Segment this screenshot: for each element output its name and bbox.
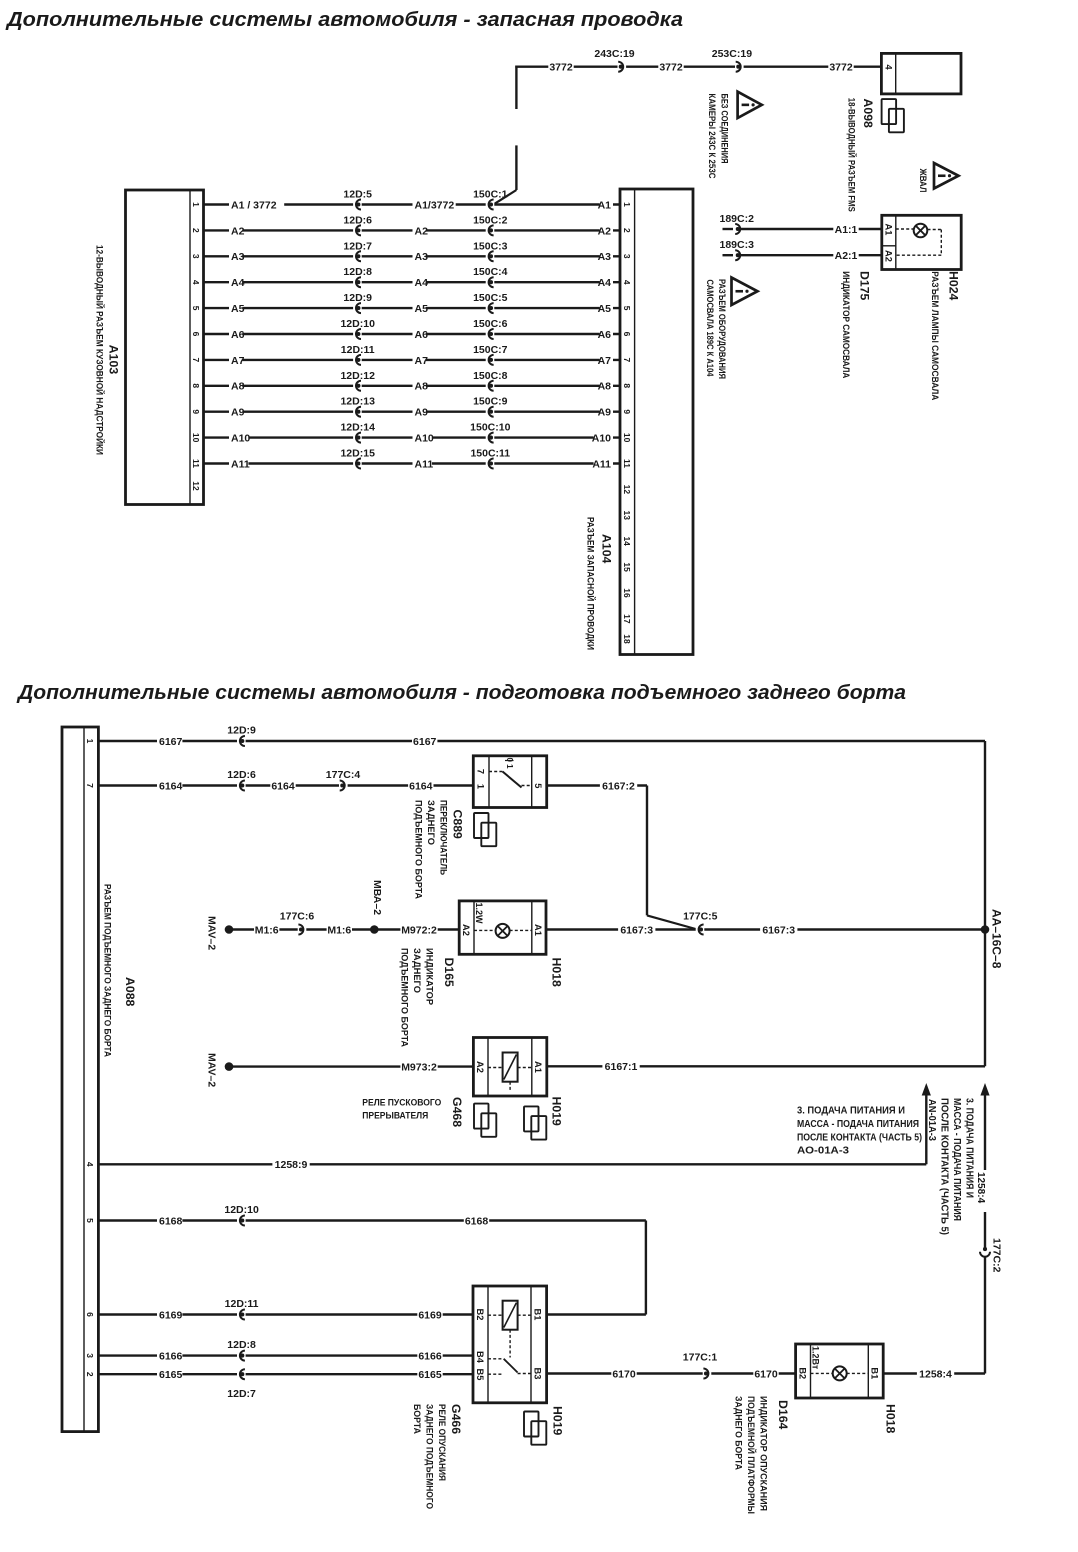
svg-text:A11: A11 xyxy=(415,458,434,470)
svg-text:A8: A8 xyxy=(415,381,429,393)
svg-text:A6: A6 xyxy=(415,329,429,341)
svg-text:A9: A9 xyxy=(415,407,429,419)
svg-text:7: 7 xyxy=(85,783,95,788)
svg-text:150C:2: 150C:2 xyxy=(473,214,508,226)
svg-text:150C:7: 150C:7 xyxy=(473,344,508,356)
svg-text:8: 8 xyxy=(622,383,632,388)
svg-text:РАЗЪЕМ ОБОРУДОВАНИЯ: РАЗЪЕМ ОБОРУДОВАНИЯ xyxy=(717,279,727,379)
svg-text:5: 5 xyxy=(533,783,543,788)
svg-text:РЕЛЕ ОПУСКАНИЯ: РЕЛЕ ОПУСКАНИЯ xyxy=(437,1404,447,1481)
svg-text:3: 3 xyxy=(622,254,632,259)
svg-text:A11: A11 xyxy=(592,458,611,470)
svg-text:177C:4: 177C:4 xyxy=(326,769,361,781)
svg-text:A088: A088 xyxy=(123,977,137,1007)
svg-text:12D:9: 12D:9 xyxy=(227,725,256,737)
svg-text:7: 7 xyxy=(622,358,632,363)
svg-text:177C:1: 177C:1 xyxy=(683,1352,718,1364)
svg-text:150C:9: 150C:9 xyxy=(473,396,508,408)
svg-text:12D:6: 12D:6 xyxy=(227,769,256,781)
svg-text:6166: 6166 xyxy=(418,1351,442,1363)
svg-text:6167:3: 6167:3 xyxy=(620,924,653,936)
svg-text:6167:2: 6167:2 xyxy=(602,780,635,792)
svg-text:12D:9: 12D:9 xyxy=(343,292,372,304)
svg-text:2: 2 xyxy=(622,228,632,233)
svg-text:6: 6 xyxy=(85,1312,95,1317)
svg-text:РАЗЪЕМ ПОДЪЕМНОГО ЗАДНЕГО БОРТ: РАЗЪЕМ ПОДЪЕМНОГО ЗАДНЕГО БОРТА xyxy=(103,884,113,1057)
svg-text:МВА–2: МВА–2 xyxy=(371,880,383,915)
svg-text:150C:5: 150C:5 xyxy=(473,292,508,304)
svg-text:150C:8: 150C:8 xyxy=(473,370,508,382)
svg-text:M1:6: M1:6 xyxy=(255,924,279,936)
svg-text:A7: A7 xyxy=(415,355,429,367)
svg-text:ЗАДНЕГО: ЗАДНЕГО xyxy=(412,948,422,993)
svg-text:11: 11 xyxy=(191,459,201,468)
svg-text:ПОДЪЕМНОЙ ПЛАТФОРМЫ: ПОДЪЕМНОЙ ПЛАТФОРМЫ xyxy=(746,1396,757,1514)
svg-text:6164: 6164 xyxy=(271,780,295,792)
svg-text:AN-01A-3: AN-01A-3 xyxy=(926,1099,937,1141)
svg-text:177C:2: 177C:2 xyxy=(991,1238,1003,1273)
svg-text:12D:6: 12D:6 xyxy=(343,214,372,226)
svg-text:B1: B1 xyxy=(533,1309,543,1321)
svg-text:A5: A5 xyxy=(231,303,245,315)
svg-text:4: 4 xyxy=(622,280,632,285)
svg-text:MAV–2: MAV–2 xyxy=(206,1053,218,1087)
svg-text:243C:19: 243C:19 xyxy=(594,48,634,60)
svg-text:12D:5: 12D:5 xyxy=(343,189,372,201)
svg-text:САМОСВАЛА 189С К А104: САМОСВАЛА 189С К А104 xyxy=(705,280,715,378)
svg-text:150C:1: 150C:1 xyxy=(473,189,508,201)
svg-text:150C:3: 150C:3 xyxy=(473,240,508,252)
svg-text:11: 11 xyxy=(622,459,632,468)
svg-text:A10: A10 xyxy=(231,433,250,445)
svg-text:3. ПОДАЧА ПИТАНИЯ И: 3. ПОДАЧА ПИТАНИЯ И xyxy=(964,1098,975,1198)
svg-text:3772: 3772 xyxy=(659,62,683,74)
svg-text:12D:10: 12D:10 xyxy=(224,1204,259,1216)
svg-text:АО-01А-3: АО-01А-3 xyxy=(797,1146,850,1157)
svg-text:A5: A5 xyxy=(415,303,429,315)
svg-text:A2: A2 xyxy=(475,1061,485,1073)
svg-text:A1/3772: A1/3772 xyxy=(415,199,455,211)
svg-text:B1: B1 xyxy=(870,1367,880,1379)
svg-text:A1 / 3772: A1 / 3772 xyxy=(231,199,277,211)
svg-text:1.2W: 1.2W xyxy=(474,903,484,925)
svg-text:5: 5 xyxy=(191,306,201,311)
svg-text:253C:19: 253C:19 xyxy=(712,48,752,60)
svg-text:13: 13 xyxy=(622,511,632,521)
svg-text:6167: 6167 xyxy=(159,736,183,748)
svg-text:177C:6: 177C:6 xyxy=(280,911,315,923)
svg-text:ЗАДНЕГО: ЗАДНЕГО xyxy=(426,800,436,845)
svg-text:12D:8: 12D:8 xyxy=(227,1339,256,1351)
svg-text:МАССА - ПОДАЧА ПИТАНИЯ: МАССА - ПОДАЧА ПИТАНИЯ xyxy=(797,1119,919,1130)
svg-text:150C:4: 150C:4 xyxy=(473,266,508,278)
svg-text:189C:2: 189C:2 xyxy=(720,213,755,225)
svg-text:A4: A4 xyxy=(231,277,245,289)
svg-text:A2: A2 xyxy=(231,225,245,237)
svg-text:ЗАДНЕГО БОРТА: ЗАДНЕГО БОРТА xyxy=(734,1396,744,1470)
svg-text:B2: B2 xyxy=(475,1309,485,1321)
svg-text:БЕЗ СОЕДИНЕНИЯ: БЕЗ СОЕДИНЕНИЯ xyxy=(719,94,729,164)
svg-text:ПОДЪЕМНОГО БОРТА: ПОДЪЕМНОГО БОРТА xyxy=(400,948,410,1047)
svg-text:A10: A10 xyxy=(592,433,611,445)
svg-text:РАЗЪЕМ ЗАПАСНОЙ ПРОВОДКИ: РАЗЪЕМ ЗАПАСНОЙ ПРОВОДКИ xyxy=(586,517,597,650)
svg-text:A1: A1 xyxy=(598,199,612,211)
svg-text:B5: B5 xyxy=(475,1369,485,1381)
svg-text:9: 9 xyxy=(622,409,632,414)
svg-text:A6: A6 xyxy=(231,329,245,341)
svg-text:12D:11: 12D:11 xyxy=(225,1298,259,1310)
svg-text:ЖВАЛ: ЖВАЛ xyxy=(918,168,928,193)
svg-text:A2: A2 xyxy=(598,225,612,237)
svg-text:B4: B4 xyxy=(475,1351,485,1364)
svg-text:12-ВЫВОДНЫЙ РАЗЪЕМ КУЗОВНОЙ НА: 12-ВЫВОДНЫЙ РАЗЪЕМ КУЗОВНОЙ НАДСТРОЙКИ xyxy=(95,245,106,455)
svg-text:12D:13: 12D:13 xyxy=(340,396,375,408)
svg-text:6169: 6169 xyxy=(418,1309,442,1321)
svg-text:6: 6 xyxy=(191,332,201,337)
svg-text:A9: A9 xyxy=(598,407,612,419)
svg-text:2: 2 xyxy=(85,1372,95,1377)
svg-text:150C:11: 150C:11 xyxy=(470,448,510,460)
svg-text:A098: A098 xyxy=(861,99,875,129)
svg-text:12D:7: 12D:7 xyxy=(343,240,372,252)
svg-text:150C:10: 150C:10 xyxy=(470,422,510,434)
svg-text:1: 1 xyxy=(622,202,632,207)
svg-text:A4: A4 xyxy=(598,277,612,289)
svg-text:10: 10 xyxy=(191,433,201,443)
svg-text:D165: D165 xyxy=(442,958,456,988)
svg-text:A3: A3 xyxy=(598,251,612,263)
svg-text:1: 1 xyxy=(85,739,95,744)
svg-text:ЗАДНЕГО ПОДЪЕМНОГО: ЗАДНЕГО ПОДЪЕМНОГО xyxy=(425,1404,435,1509)
svg-text:15: 15 xyxy=(622,562,632,572)
svg-text:H019: H019 xyxy=(550,1097,564,1127)
svg-text:ИНДИКАТОР САМОСВАЛА: ИНДИКАТОР САМОСВАЛА xyxy=(841,271,851,378)
svg-text:6167:3: 6167:3 xyxy=(762,924,795,936)
svg-text:12D:14: 12D:14 xyxy=(340,422,375,434)
svg-text:6168: 6168 xyxy=(159,1215,183,1227)
svg-text:A8: A8 xyxy=(231,381,245,393)
svg-text:14: 14 xyxy=(622,536,632,546)
svg-text:Дополнительные системы автомоб: Дополнительные системы автомобиля - запа… xyxy=(5,8,683,31)
svg-text:A7: A7 xyxy=(231,355,245,367)
svg-text:4: 4 xyxy=(191,280,201,285)
svg-text:6170: 6170 xyxy=(754,1368,778,1380)
svg-text:177C:5: 177C:5 xyxy=(683,911,718,923)
svg-text:2: 2 xyxy=(191,228,201,233)
svg-text:H018: H018 xyxy=(550,958,564,988)
svg-text:G468: G468 xyxy=(450,1097,464,1127)
svg-text:6166: 6166 xyxy=(159,1351,183,1363)
svg-text:0 1: 0 1 xyxy=(505,758,514,770)
svg-text:КАМЕРЫ 243С К 253С: КАМЕРЫ 243С К 253С xyxy=(707,94,717,179)
svg-text:AA–16C–8: AA–16C–8 xyxy=(990,909,1004,969)
svg-text:A5: A5 xyxy=(598,303,612,315)
svg-text:A8: A8 xyxy=(598,381,612,393)
svg-text:A2: A2 xyxy=(883,250,893,262)
svg-text:6167:1: 6167:1 xyxy=(605,1061,638,1073)
svg-text:3: 3 xyxy=(85,1353,95,1358)
svg-text:ПОСЛЕ КОНТАКТА (ЧАСТЬ 5): ПОСЛЕ КОНТАКТА (ЧАСТЬ 5) xyxy=(939,1098,950,1235)
svg-text:A4: A4 xyxy=(415,277,429,289)
svg-text:A103: A103 xyxy=(107,345,121,375)
svg-text:3: 3 xyxy=(191,254,201,259)
svg-text:5: 5 xyxy=(622,306,632,311)
svg-text:150C:6: 150C:6 xyxy=(473,318,508,330)
svg-text:C889: C889 xyxy=(451,810,465,840)
svg-text:БОРТА: БОРТА xyxy=(412,1404,422,1434)
svg-text:3. ПОДАЧА ПИТАНИЯ И: 3. ПОДАЧА ПИТАНИЯ И xyxy=(797,1106,905,1117)
svg-text:B2: B2 xyxy=(798,1367,808,1379)
svg-text:3772: 3772 xyxy=(829,62,853,74)
svg-text:1258:9: 1258:9 xyxy=(275,1159,308,1171)
svg-text:17: 17 xyxy=(622,614,632,624)
svg-text:A1: A1 xyxy=(533,1061,543,1073)
svg-text:1: 1 xyxy=(475,784,485,789)
svg-text:12D:15: 12D:15 xyxy=(340,448,375,460)
svg-text:6168: 6168 xyxy=(465,1215,489,1227)
svg-text:10: 10 xyxy=(622,433,632,443)
svg-text:4: 4 xyxy=(884,65,894,71)
svg-text:7: 7 xyxy=(191,358,201,363)
svg-text:16: 16 xyxy=(622,588,632,598)
svg-text:ПОСЛЕ КОНТАКТА (ЧАСТЬ 5): ПОСЛЕ КОНТАКТА (ЧАСТЬ 5) xyxy=(797,1133,922,1144)
svg-text:H019: H019 xyxy=(551,1406,565,1436)
svg-text:9: 9 xyxy=(191,409,201,414)
svg-text:A1: A1 xyxy=(533,924,543,936)
svg-text:D164: D164 xyxy=(776,1400,790,1430)
svg-text:H024: H024 xyxy=(947,271,961,301)
svg-text:1258:4: 1258:4 xyxy=(919,1368,952,1380)
svg-text:12D:7: 12D:7 xyxy=(227,1388,256,1400)
svg-text:M973:2: M973:2 xyxy=(401,1062,437,1074)
svg-text:A104: A104 xyxy=(600,534,614,564)
svg-text:Дополнительные системы автомоб: Дополнительные системы автомобиля - подг… xyxy=(16,682,906,704)
svg-text:A3: A3 xyxy=(415,251,429,263)
svg-text:6167: 6167 xyxy=(413,736,437,748)
svg-text:ПЕРЕКЛЮЧАТЕЛЬ: ПЕРЕКЛЮЧАТЕЛЬ xyxy=(439,800,449,875)
svg-text:G466: G466 xyxy=(449,1404,463,1434)
svg-text:1: 1 xyxy=(191,202,201,207)
svg-text:12D:8: 12D:8 xyxy=(343,266,372,278)
svg-text:8: 8 xyxy=(191,383,201,388)
svg-text:18: 18 xyxy=(622,634,632,644)
svg-text:5: 5 xyxy=(85,1218,95,1223)
svg-text:12D:12: 12D:12 xyxy=(340,370,375,382)
svg-text:6164: 6164 xyxy=(159,780,183,792)
svg-text:A1: A1 xyxy=(883,224,893,236)
svg-text:МАССА - ПОДАЧА ПИТАНИЯ: МАССА - ПОДАЧА ПИТАНИЯ xyxy=(951,1098,962,1221)
svg-text:6165: 6165 xyxy=(159,1369,183,1381)
svg-text:12D:11: 12D:11 xyxy=(341,344,375,356)
svg-text:3772: 3772 xyxy=(549,62,573,74)
svg-text:6170: 6170 xyxy=(612,1368,636,1380)
svg-text:A1:1: A1:1 xyxy=(835,224,858,236)
svg-text:MAV–2: MAV–2 xyxy=(206,916,218,950)
svg-text:ИНДИКАТОР ОПУСКАНИЯ: ИНДИКАТОР ОПУСКАНИЯ xyxy=(759,1396,769,1511)
svg-text:18-ВЫВОДНЫЙ РАЗЪЕМ FMS: 18-ВЫВОДНЫЙ РАЗЪЕМ FMS xyxy=(846,98,857,212)
svg-text:1258:4: 1258:4 xyxy=(975,1172,986,1204)
svg-text:6169: 6169 xyxy=(159,1309,183,1321)
svg-text:A10: A10 xyxy=(415,433,434,445)
svg-text:B3: B3 xyxy=(533,1368,543,1380)
svg-text:ИНДИКАТОР: ИНДИКАТОР xyxy=(425,948,435,1005)
svg-text:ПОДЪЕМНОГО БОРТА: ПОДЪЕМНОГО БОРТА xyxy=(414,800,424,899)
svg-text:A3: A3 xyxy=(231,251,245,263)
svg-text:M972:2: M972:2 xyxy=(401,924,437,936)
svg-text:A9: A9 xyxy=(231,407,245,419)
svg-text:ПРЕРЫВАТЕЛЯ: ПРЕРЫВАТЕЛЯ xyxy=(362,1111,428,1122)
svg-text:A2: A2 xyxy=(415,225,429,237)
svg-text:РАЗЪЕМ ЛАМПЫ САМОСВАЛА: РАЗЪЕМ ЛАМПЫ САМОСВАЛА xyxy=(930,271,940,400)
svg-text:A11: A11 xyxy=(231,458,250,470)
svg-text:A6: A6 xyxy=(598,329,612,341)
svg-text:189C:3: 189C:3 xyxy=(720,239,755,251)
svg-text:6165: 6165 xyxy=(418,1369,442,1381)
svg-text:H018: H018 xyxy=(884,1404,898,1434)
svg-text:6: 6 xyxy=(622,332,632,337)
svg-text:РЕЛЕ ПУСКОВОГО: РЕЛЕ ПУСКОВОГО xyxy=(362,1098,441,1109)
svg-text:D175: D175 xyxy=(858,271,872,301)
svg-text:7: 7 xyxy=(475,769,485,774)
svg-text:A7: A7 xyxy=(598,355,612,367)
svg-text:M1:6: M1:6 xyxy=(327,924,351,936)
svg-text:12: 12 xyxy=(622,485,632,495)
svg-text:1.2Вт: 1.2Вт xyxy=(811,1346,821,1370)
svg-text:A2: A2 xyxy=(461,924,471,936)
svg-text:12: 12 xyxy=(191,481,201,491)
svg-text:6164: 6164 xyxy=(409,780,433,792)
svg-text:12D:10: 12D:10 xyxy=(340,318,375,330)
svg-text:4: 4 xyxy=(85,1162,95,1167)
svg-text:A2:1: A2:1 xyxy=(835,250,858,262)
